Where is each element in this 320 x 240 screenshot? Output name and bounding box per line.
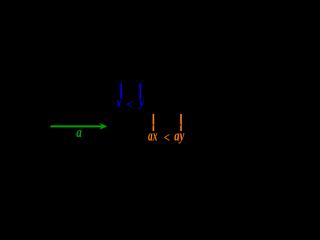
svg-text:ay: ay	[174, 129, 184, 145]
svg-text:ax: ax	[148, 129, 157, 145]
svg-text:<: <	[126, 96, 133, 111]
node x: blue tick over x	[120, 83, 122, 99]
svg-text:y: y	[137, 95, 144, 110]
svg-text:x: x	[115, 95, 122, 110]
svg-text:<: <	[164, 130, 170, 145]
node ay: orange tick over ay	[180, 114, 182, 131]
node ax: orange tick over ax	[153, 114, 155, 131]
green arrow head	[100, 123, 108, 130]
svg-text:a: a	[76, 125, 82, 141]
wire: green arrow shaft for scaling map a	[51, 125, 103, 127]
node y: blue tick over y	[139, 83, 141, 99]
